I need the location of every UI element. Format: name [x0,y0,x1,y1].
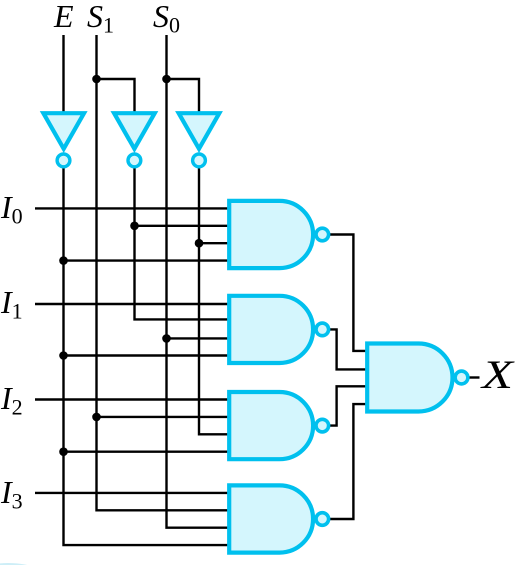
wire E' vertical below inverter 1 down to gate4 elbow [64,168,230,545]
inverter 3 (S0) [179,113,220,167]
svg-text:I2: I2 [0,380,23,420]
wire gate2 output to final gate input 2 [329,329,368,369]
wire final gate output to X [468,376,480,378]
wire E' branch to gate2 input 4 [64,354,230,356]
node E' to gate2 junction [59,351,68,360]
wire S0 branch to gate2 input 3 [167,337,230,339]
NAND gate 3 (I2) [229,392,328,459]
svg-text:X: X [479,352,515,397]
node E' to gate3 junction [59,447,68,456]
wire E input to inverter [62,35,64,113]
wire S1' branch to gate1 input 2 [135,225,230,227]
svg-text:I1: I1 [0,284,23,324]
wire S0 branch to inverter 3 [167,79,200,113]
NAND gate 5 (output X) [367,344,468,412]
wire gate3 output to final gate input 3 [329,386,368,425]
wire S0 input vertical down to gate4 elbow [167,35,230,528]
svg-text:I0: I0 [0,189,23,229]
wire I0 input to gate1 [35,207,229,209]
svg-text:S0: S0 [153,0,180,38]
wire gate1 output to final gate input 1 [329,235,368,351]
wire S1 input vertical down to gate4 elbow [97,35,230,510]
wire I2 input to gate3 [35,398,229,400]
node S0 branch junction [162,75,171,84]
wire S1' vertical below inverter 2 down to gate2 elbow [135,168,230,319]
wire I1 input to gate2 [35,303,229,305]
node S1 branch junction [92,75,101,84]
wire gate4 output to final gate input 4 [329,404,368,519]
svg-text:E: E [53,0,74,34]
inverter 1 (E) [43,113,84,167]
wire S1 branch to inverter 2 [97,79,135,113]
node S1 to gate3 junction [92,413,101,422]
decorative corner arc (page artifact) [0,563,52,565]
wire S1 branch to gate3 input 2 [97,416,230,418]
NAND gate 4 (I3) [229,485,328,552]
wire I3 input to gate4 [35,492,229,494]
wire E' branch to gate1 input 4 [64,259,230,261]
node S1' to gate1 junction [130,222,139,231]
wire S0' branch to gate1 input 3 [199,242,229,244]
node E' to gate1 junction [59,256,68,265]
NAND gate 2 (I1) [229,296,328,363]
wire S0' vertical below inverter 3 down to gate3 elbow [199,168,229,434]
NAND gate 1 (I0) [229,201,328,268]
inverter 2 (S1) [114,113,155,167]
node S0 to gate2 junction [162,334,171,343]
svg-text:I3: I3 [0,474,23,514]
svg-text:S1: S1 [87,0,114,38]
node S0' to gate1 junction [195,239,204,248]
wire E' branch to gate3 input 4 [64,451,230,453]
